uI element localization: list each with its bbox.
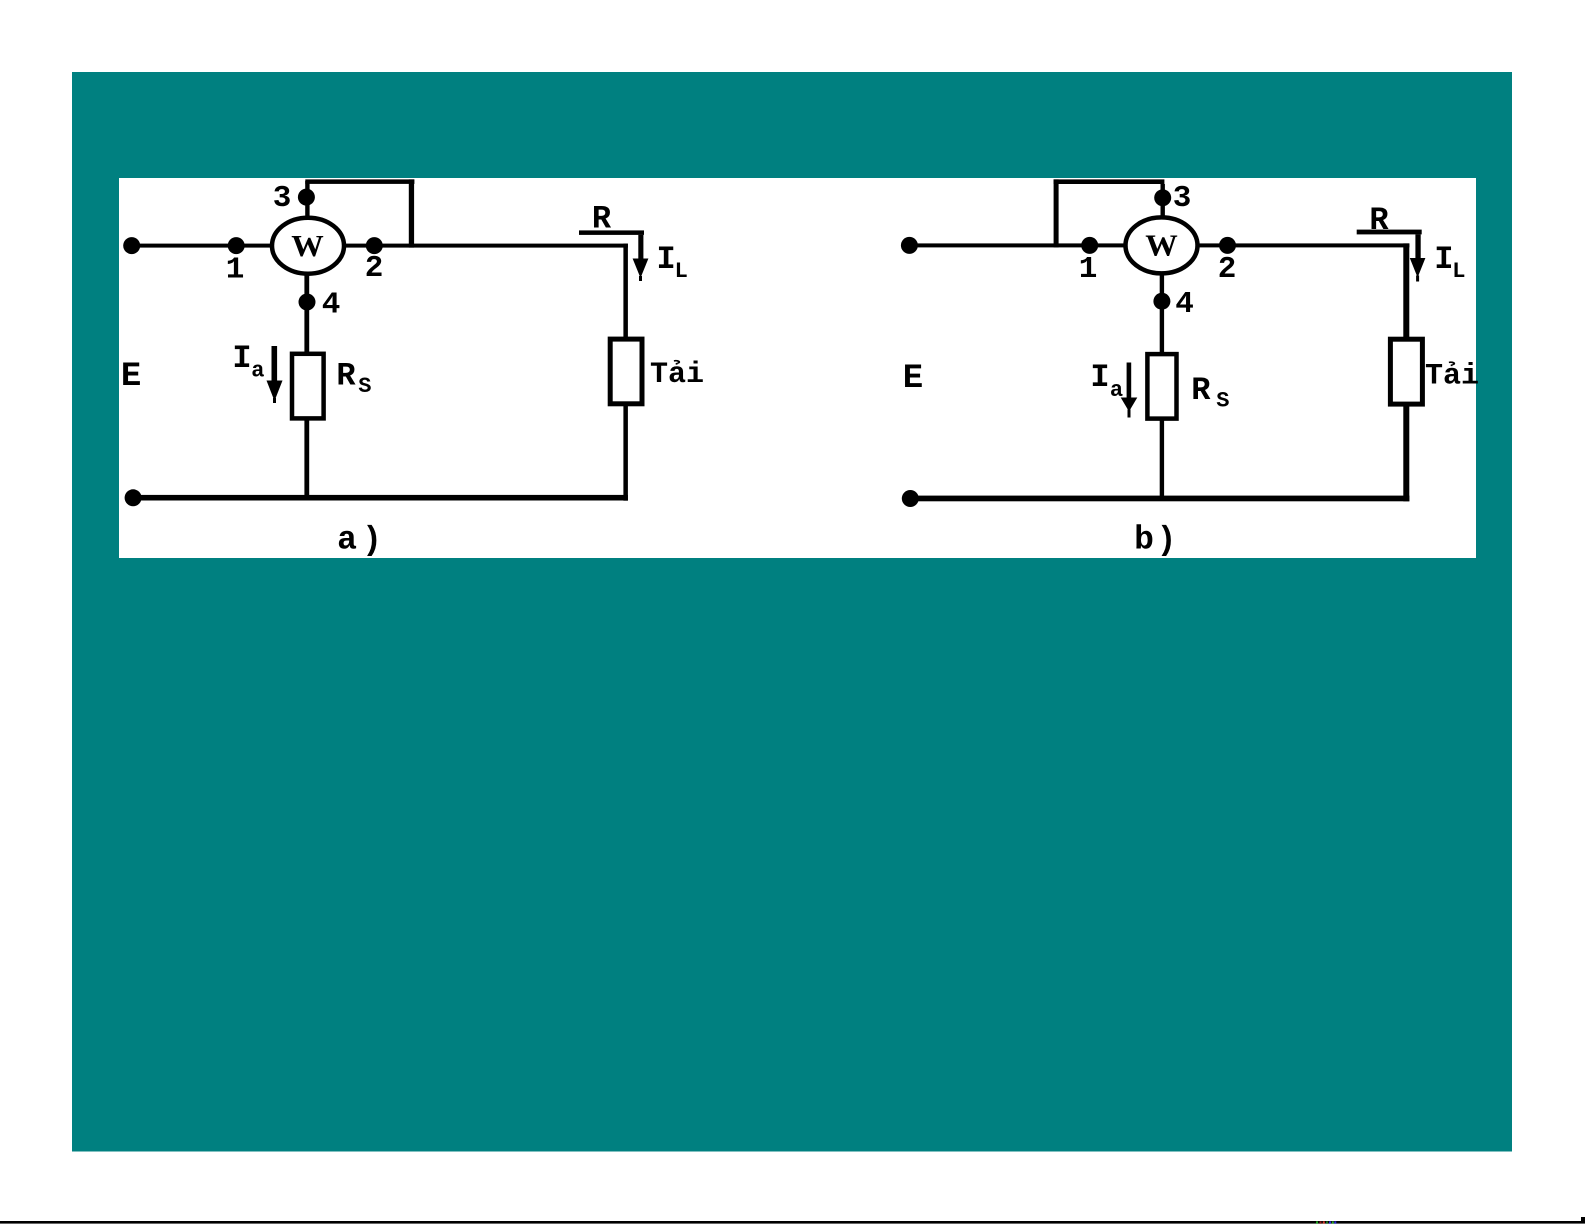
svg-text:Tải: Tải [650, 358, 704, 392]
bottom-rule color specks [1316, 1221, 1336, 1223]
node 3 (b) [1154, 189, 1171, 206]
node 1 (b) [1081, 237, 1098, 254]
node 3 (a) [298, 189, 315, 206]
label Ia (b) [1090, 359, 1123, 403]
wire: potential-coil jumper drop (b) [1054, 179, 1059, 247]
wire: potential-coil jumper top bar (a) [305, 179, 414, 184]
svg-text:E: E [121, 358, 141, 396]
svg-text:E: E [903, 360, 923, 398]
caption a [337, 522, 382, 560]
arrow IL (a) [633, 259, 649, 282]
wire: RS bottom lead (a) [304, 418, 309, 498]
svg-text:L: L [1452, 259, 1465, 284]
wire: stub wattmeter top to node 3 (b) [1161, 184, 1165, 246]
svg-text:S: S [1216, 388, 1229, 413]
svg-text:4: 4 [322, 288, 341, 323]
node: left source terminal (a) [123, 237, 140, 254]
svg-text:R: R [1191, 372, 1211, 409]
svg-text:2: 2 [365, 251, 384, 286]
label RS (a) [336, 358, 371, 399]
node: bottom source terminal (b) [902, 490, 919, 507]
svg-text:a: a [1110, 378, 1123, 403]
wire: R take-off drop (b) [1415, 234, 1420, 259]
arrow IL (b) [1410, 258, 1426, 282]
wire: stub wattmeter top to node 3 (a) [305, 181, 309, 246]
svg-text:I: I [1434, 241, 1453, 278]
node 1 (a) [228, 237, 245, 254]
caption b [1134, 522, 1176, 560]
svg-text:W: W [1145, 228, 1178, 263]
wire: top bus (a) [132, 244, 628, 248]
svg-text:I: I [656, 241, 675, 278]
wire: R take-off bar (a) [579, 230, 644, 235]
svg-text:2: 2 [1218, 252, 1237, 287]
node 4 (b) [1153, 293, 1170, 310]
wire: load branch drop (a) [623, 244, 628, 340]
resistor Tai load (b) [1390, 339, 1422, 404]
wattmeter W (a) [272, 218, 344, 274]
svg-text:a: a [251, 359, 264, 384]
wire: top bus (b) [909, 243, 1409, 247]
wire: RS bottom lead (b) [1160, 419, 1164, 501]
wire: bottom return bus (a) [133, 495, 628, 501]
svg-text:3: 3 [273, 181, 292, 216]
wire: load bottom lead (b) [1403, 404, 1409, 501]
svg-text:a: a [337, 522, 357, 559]
svg-text:3: 3 [1173, 181, 1192, 216]
label IL (a) [656, 241, 687, 284]
wire: R take-off drop (a) [638, 235, 643, 261]
resistor Tai load (a) [610, 339, 642, 404]
arrow Ia (b) [1121, 363, 1138, 418]
svg-text:): ) [362, 522, 382, 559]
wire: current-coil drop to node 4 (a) [304, 274, 309, 354]
svg-text:): ) [1157, 522, 1177, 559]
bottom page rule [0, 1221, 1585, 1224]
wire: bottom return bus (b) [910, 496, 1409, 502]
label RS (b) [1191, 372, 1229, 413]
resistor RS (a) [292, 354, 324, 419]
wire: current-coil drop to node 4 (b) [1160, 273, 1164, 354]
svg-text:S: S [358, 374, 371, 399]
svg-text:4: 4 [1175, 287, 1194, 322]
svg-text:L: L [675, 259, 688, 284]
node: left source terminal (b) [901, 237, 918, 254]
wire: potential-coil jumper drop (a) [409, 179, 414, 247]
wattmeter W (b) [1126, 217, 1198, 273]
bottom-right tick [1581, 1217, 1585, 1224]
label IL (b) [1434, 241, 1465, 284]
svg-text:1: 1 [226, 252, 245, 287]
arrow Ia (a) [267, 346, 283, 403]
wire: load bottom lead (a) [623, 404, 628, 501]
svg-text:I: I [232, 340, 251, 377]
node 2 (a) [366, 237, 383, 254]
wire: R take-off bar (b) [1357, 230, 1422, 235]
resistor RS (b) [1147, 354, 1176, 419]
node 2 (b) [1219, 237, 1236, 254]
svg-text:b: b [1134, 522, 1154, 559]
svg-text:1: 1 [1079, 252, 1098, 287]
svg-text:W: W [291, 228, 324, 263]
svg-text:I: I [1090, 359, 1109, 396]
svg-text:Tải: Tải [1425, 360, 1479, 394]
figure panel [119, 178, 1476, 558]
node: bottom source terminal (a) [125, 489, 142, 506]
wire: potential-coil jumper top bar (b) [1054, 179, 1165, 184]
label Ia (a) [232, 340, 264, 384]
svg-text:R: R [336, 358, 356, 395]
wire: load branch drop (b) [1403, 243, 1409, 339]
node 4 (a) [299, 294, 316, 311]
